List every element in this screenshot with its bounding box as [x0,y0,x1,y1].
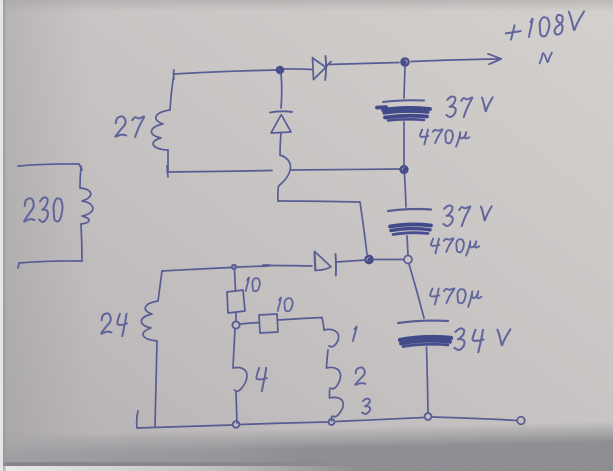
zener diode DZ [270,111,292,133]
junction node J7 [233,421,240,428]
label 1 [353,327,357,341]
wire J6 to fuse F2 [240,323,259,325]
wire base horizontal to vertical drop [278,201,367,254]
label 470u third [430,288,481,307]
diode D1 [313,56,332,80]
wire F2 to winding L3 [278,318,324,331]
label 34V [454,328,510,352]
capacitor C2 top lead [405,174,407,207]
winding L3 link 2 [329,390,331,397]
bottom rail [137,411,516,428]
label +108V [506,11,584,39]
zener diode DZ anode lead [280,133,281,155]
zener diode DZ cathode lead [280,73,283,108]
diode D2 [315,252,336,276]
winding L2 (24) [141,301,158,341]
open node N2 [517,417,525,425]
label 470u [420,129,469,146]
wire J6 to winding L4 [233,329,235,367]
wire D1 to J2 [327,63,399,65]
label 10 [246,278,260,292]
wire 24 loop top rail [162,266,268,271]
wire D2 to J4 [336,260,366,262]
wire to diode D2 [270,265,312,268]
winding L1 (27) [151,110,170,150]
winding L3 link [327,350,329,367]
winding L3 tap 2 [327,367,341,388]
junction node J6 [232,321,239,328]
wire lower rail of 27 loop [167,166,400,177]
winding L2 bottom lead [155,341,157,427]
transformer primary 230 right lead [80,166,81,188]
open node N1 [404,256,412,264]
label 37V second [443,206,491,226]
label 10 second [278,298,293,312]
wire dash [263,264,270,267]
capacitor C1 bottom lead [403,122,405,166]
winding L4 bottom lead [236,392,237,423]
winding L3 bottom lead [331,417,333,421]
wire top rail left [174,70,277,74]
capacitor C3 bottom lead [427,347,429,413]
label 2 [355,367,365,384]
wire J4 to N1 [374,259,404,261]
winding L3 tap 1 [324,329,339,346]
capacitor C2 [388,209,431,235]
label 37V [446,97,492,117]
wire J1 to diode D1 [284,68,312,71]
winding L3 tap 3 [330,397,344,416]
fuse F2 (10) [259,314,278,333]
wire J5 to fuse F1 [235,270,236,291]
capacitor C1 top lead [404,66,405,98]
value label 27 [115,116,144,137]
capacitor C1 [377,100,430,120]
winding L2 top lead [158,271,162,301]
wire N1 to capacitor C3 [409,264,424,318]
junction node J1 [277,67,283,73]
transformer primary winding 230 [80,188,93,224]
wire F1 to J6 [235,313,237,321]
junction node J2 [401,58,408,65]
junction node J9 [329,419,335,425]
junction node J5 [232,265,236,269]
output arrow [411,54,501,65]
value label 4 [256,368,266,391]
value label 24 [101,313,127,336]
winding L1 bottom lead [167,150,169,172]
wire hop over lower rail [278,155,291,201]
transformer primary 230 lower lead [81,224,82,261]
value label 230 [24,197,62,222]
junction node J3 [401,166,408,173]
winding L1 top lead [170,70,174,110]
junction node J8 [425,413,432,420]
fuse F1 (10) [227,290,245,313]
label 470u second [431,238,479,255]
label N [540,53,552,64]
winding L4 (4) [233,368,247,392]
junction node J4 [365,256,372,263]
transformer primary 230 top wire [18,164,82,170]
label 3 [362,399,370,414]
capacitor C3 [398,321,451,347]
capacitor C2 bottom lead [407,236,408,255]
transformer primary 230 bottom wire [18,261,82,268]
